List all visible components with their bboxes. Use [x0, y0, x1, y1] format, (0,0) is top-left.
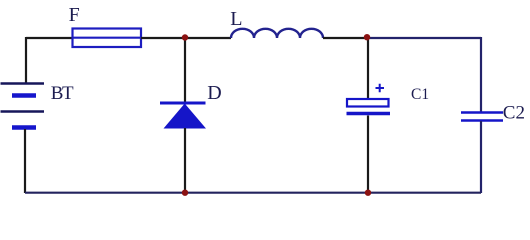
svg-text:C1: C1	[411, 86, 429, 103]
svg-text:D: D	[207, 82, 221, 104]
wire C1 upper (node B down to C1)	[367, 37, 369, 99]
svg-text:L: L	[230, 8, 242, 30]
wire node A to inductor	[185, 37, 231, 39]
wire fuse to node A	[141, 37, 185, 39]
wire bottom rail	[25, 192, 481, 194]
svg-text:C2: C2	[503, 103, 525, 124]
node B junction dot	[364, 34, 370, 40]
wire left vertical lower (battery - to bottom)	[24, 129, 26, 193]
wire left vertical (top corner down to battery +)	[25, 37, 27, 84]
capacitor C1 (polarized)	[347, 84, 391, 114]
battery BT	[1, 84, 45, 128]
svg-text:BT: BT	[51, 83, 74, 104]
node C junction dot (bottom, diode)	[182, 190, 188, 196]
wire inductor to node B	[323, 37, 367, 39]
wire diode lower (diode to bottom wire)	[184, 128, 186, 193]
capacitor C2	[461, 113, 503, 121]
diode D	[160, 103, 206, 129]
node D junction dot (bottom, C1)	[365, 190, 371, 196]
wire diode upper (node A down to diode)	[184, 37, 186, 102]
fuse F body	[73, 29, 142, 48]
wire C1 lower (C1 to bottom node)	[367, 116, 369, 194]
svg-text:F: F	[69, 4, 80, 26]
wire node B to top-right corner (blue)	[367, 37, 481, 39]
wire right vertical lower (C2 to bottom corner)	[480, 121, 482, 193]
wire top-left horizontal (battery to fuse)	[26, 37, 72, 39]
wire right vertical upper (to C2)	[480, 37, 482, 112]
inductor L coil	[231, 29, 323, 38]
node A junction dot	[182, 34, 188, 40]
